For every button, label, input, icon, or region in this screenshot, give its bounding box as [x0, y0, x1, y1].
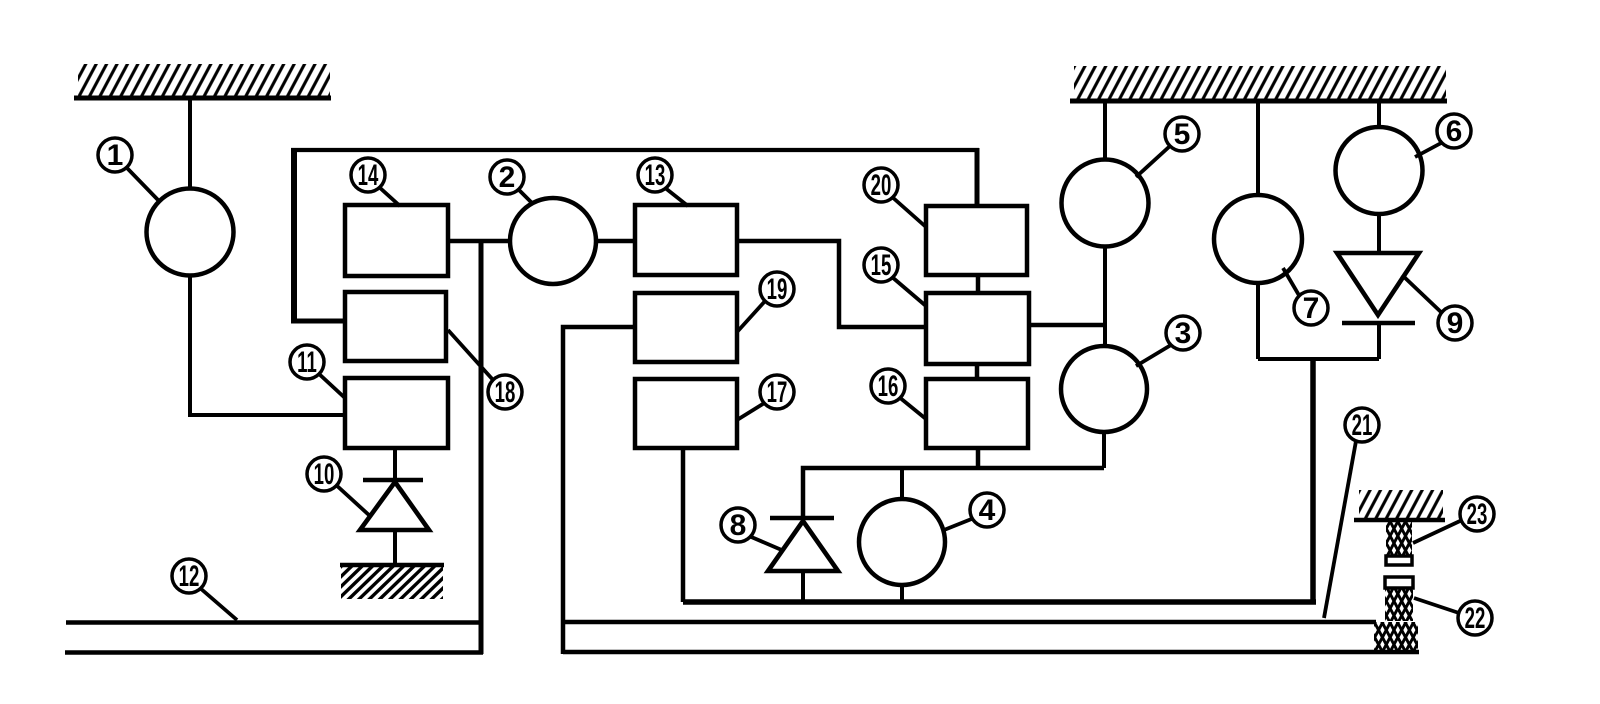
label 8 — [721, 508, 784, 551]
label 5 — [1136, 117, 1199, 177]
wire top loop horizontal — [291, 148, 979, 152]
svg-text:1: 1 — [107, 139, 124, 172]
svg-text:12: 12 — [179, 560, 200, 594]
rail 12 left top — [66, 620, 483, 625]
label 17 — [737, 375, 794, 420]
svg-text:11: 11 — [297, 346, 317, 380]
label 3 — [1136, 316, 1200, 366]
wire block 15 to node under component 5 — [1029, 323, 1105, 328]
label 6 — [1415, 114, 1471, 157]
label 2 — [490, 160, 533, 204]
ceiling hatch left — [74, 64, 331, 98]
block 13 — [635, 205, 737, 275]
component 1 (circle) — [147, 189, 234, 276]
component 2 (circle) — [510, 198, 596, 284]
piston 23 (crosshatched) — [1386, 522, 1412, 565]
wire ceiling to component 7 — [1256, 101, 1260, 196]
svg-text:19: 19 — [767, 273, 788, 307]
label 22 — [1414, 598, 1492, 635]
wire top loop right vertical — [975, 148, 980, 206]
wire return pipe 21 vertical — [1310, 359, 1316, 602]
label 1 — [98, 138, 159, 201]
svg-text:7: 7 — [1303, 292, 1320, 325]
wire component 4 to drain line — [900, 585, 904, 602]
svg-text:10: 10 — [314, 458, 335, 492]
check valve 10 — [360, 448, 429, 564]
component 3 (circle) — [1061, 346, 1147, 432]
svg-text:5: 5 — [1174, 118, 1191, 151]
label 16 — [871, 369, 926, 419]
component 5 (circle) — [1062, 160, 1149, 247]
svg-text:3: 3 — [1175, 317, 1192, 350]
wire component 1 to block 11 — [190, 275, 346, 415]
rail right bottom — [563, 650, 1419, 655]
svg-text:8: 8 — [730, 509, 747, 542]
wire component 7 down — [1256, 281, 1260, 359]
svg-text:21: 21 — [1352, 409, 1373, 443]
component 6 (circle) — [1336, 127, 1423, 214]
label 15 — [864, 248, 926, 306]
label 18 — [448, 330, 522, 409]
wire block 19 to right rail — [563, 327, 635, 654]
label 10 — [307, 457, 370, 516]
check valve 8 — [768, 518, 838, 571]
block 17 — [635, 379, 737, 448]
base block 22 (crosshatched) — [1374, 622, 1418, 654]
block 16 — [926, 379, 1028, 448]
label 9 — [1402, 275, 1472, 340]
rail right top — [563, 620, 1376, 625]
ground hatch under valve 10 — [340, 565, 444, 599]
label 21 — [1324, 408, 1379, 618]
wire block 20 to block 15 — [976, 275, 981, 293]
label 20 — [864, 168, 926, 227]
block 14 — [345, 205, 448, 276]
label 7 — [1283, 268, 1328, 325]
component 4 (circle) — [859, 499, 945, 585]
block 18 — [345, 292, 446, 361]
wire ceiling to component 6 — [1377, 101, 1381, 129]
wire ceiling to component 1 — [188, 100, 192, 190]
wire check valve 9 down — [1377, 323, 1381, 359]
wire component 5 to component 3 — [1103, 246, 1107, 348]
component 7 (circle) — [1214, 195, 1302, 283]
wire block 15 to block 16 — [975, 364, 980, 379]
wire long vertical to left rail — [479, 241, 484, 654]
svg-text:23: 23 — [1467, 498, 1488, 532]
wire check valve 8 to drain line — [801, 571, 805, 602]
svg-text:22: 22 — [1465, 602, 1486, 636]
wire ceiling to component 5 — [1103, 101, 1107, 162]
piston 22 (crosshatched) — [1385, 577, 1413, 621]
label 13 — [638, 158, 688, 206]
svg-text:4: 4 — [979, 494, 996, 527]
wire component 6 to check valve 9 — [1377, 214, 1381, 255]
label 23 — [1413, 497, 1494, 543]
svg-text:6: 6 — [1446, 115, 1463, 148]
ceiling hatch small above 23 — [1354, 490, 1445, 520]
svg-text:18: 18 — [495, 376, 516, 410]
wire top loop left vertical — [291, 148, 297, 323]
drain line (thick) — [683, 599, 1316, 605]
block 15 — [926, 293, 1029, 364]
label 11 — [290, 345, 345, 398]
wire block 13 to block 15 — [737, 241, 926, 327]
wire top loop stub to block 18 — [291, 319, 346, 324]
wire component 3 to manifold — [1102, 430, 1106, 468]
svg-text:2: 2 — [499, 161, 516, 194]
svg-text:15: 15 — [871, 249, 892, 283]
svg-text:9: 9 — [1447, 307, 1464, 340]
wire block 16 down — [976, 448, 981, 468]
label 19 — [737, 272, 794, 332]
block 20 — [926, 206, 1027, 275]
svg-text:20: 20 — [871, 169, 892, 203]
block 11 — [345, 378, 448, 448]
wire horizontal 7 to 9 — [1258, 357, 1379, 361]
block 19 — [635, 293, 737, 362]
wire manifold to component 4 — [900, 468, 904, 500]
rail 12 left bottom — [65, 650, 483, 655]
wire horizontal manifold y468 — [803, 468, 1104, 518]
svg-text:14: 14 — [358, 159, 379, 193]
svg-text:13: 13 — [645, 159, 666, 193]
wire component 2 to block 13 — [596, 239, 635, 244]
wire block 17 down to drain line — [681, 448, 686, 602]
wire block 14 to component 2 — [448, 239, 511, 244]
label 14 — [351, 158, 400, 206]
label 12 — [172, 559, 237, 620]
svg-text:16: 16 — [878, 370, 899, 404]
label 4 — [944, 493, 1004, 530]
svg-text:17: 17 — [767, 376, 788, 410]
ceiling hatch right — [1070, 66, 1447, 101]
check valve 9 (down) — [1337, 253, 1419, 323]
